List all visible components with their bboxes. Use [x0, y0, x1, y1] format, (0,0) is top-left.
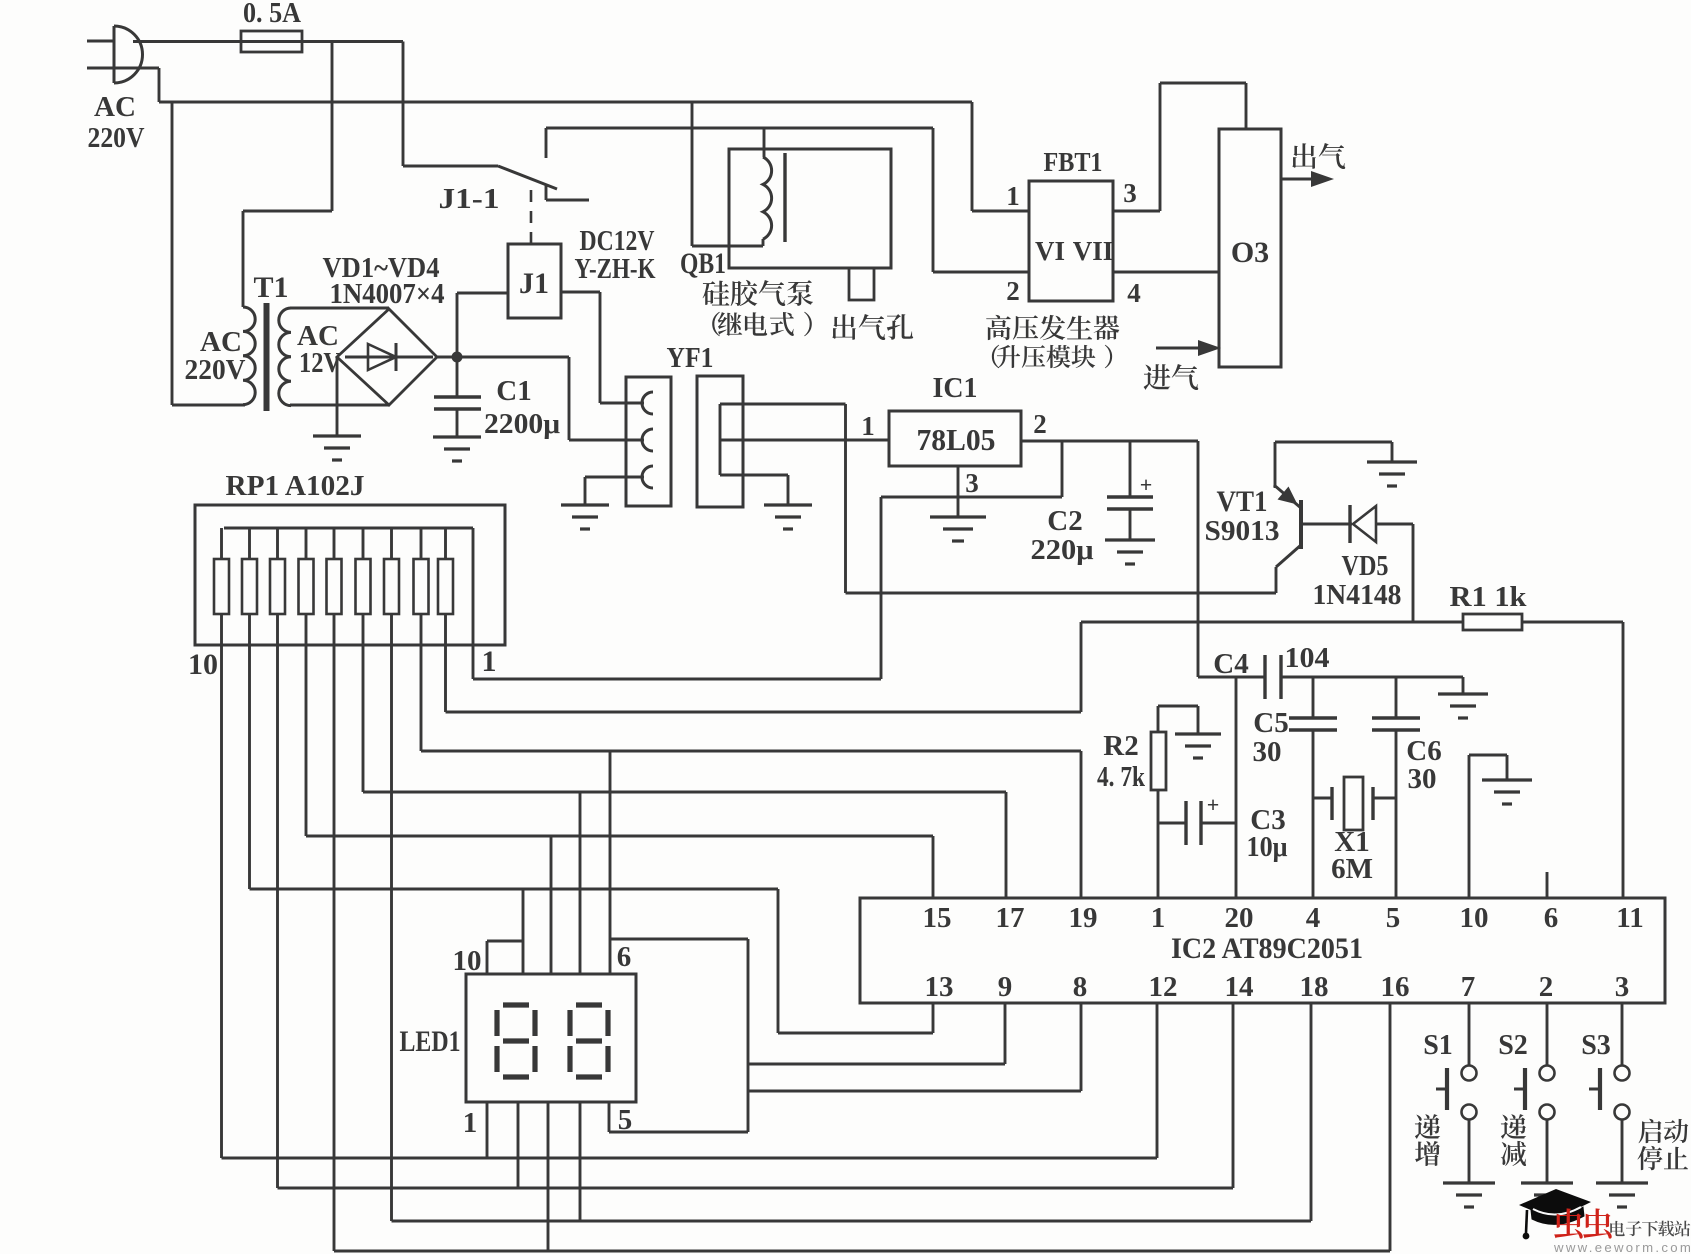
label R2 — [1103, 730, 1138, 762]
wire plug lower to AC rail — [107, 68, 159, 102]
label pin 1 (IC1) — [861, 411, 875, 441]
LED1 pin6 wire — [609, 751, 612, 974]
fuse FU 0.5A — [241, 31, 302, 52]
RP1 resistor elements — [214, 528, 453, 645]
LED1 pin5 bracket — [609, 1102, 748, 1132]
relay J1 — [508, 244, 561, 318]
wire RP1-9 to R1 rail — [446, 622, 1082, 712]
transistor VT1 — [1274, 485, 1301, 593]
connector YF1 left shell — [626, 377, 671, 506]
label J1-1 — [439, 184, 500, 215]
svg-text:2200μ: 2200μ — [484, 408, 561, 440]
label 30 (C5) — [1253, 736, 1282, 768]
crystal X1 — [1313, 777, 1396, 830]
label pin 17 (IC2 top) — [996, 902, 1025, 934]
LED1 pin2 wire — [517, 1102, 520, 1188]
svg-text:S2: S2 — [1498, 1030, 1528, 1061]
svg-text:10μ: 10μ — [1247, 831, 1288, 863]
resistor R2 — [1151, 732, 1166, 790]
label 1N4148 — [1313, 579, 1402, 611]
label pin 6 (IC2 top) — [1544, 902, 1559, 934]
label silicone air pump — [703, 280, 813, 306]
ground (C4 rail) — [1438, 694, 1488, 718]
wire RP1-1 to IC2 pin12 rail — [222, 645, 1158, 1158]
label 104 — [1285, 642, 1330, 674]
label pin 11 (IC2 top) — [1616, 902, 1643, 934]
label pin 3 (FBT1) — [1123, 178, 1137, 208]
LED1 pin4 wire — [579, 1102, 582, 1221]
wire fuse branch to T1 primary — [243, 42, 332, 308]
svg-text:12: 12 — [1149, 971, 1178, 1003]
svg-text:VII: VII — [1073, 236, 1114, 266]
ground (YF1 right) — [764, 505, 812, 529]
switch J1-1 arm — [403, 166, 557, 189]
LED1 digit 8 (left) — [497, 1005, 535, 1077]
wire C4 rail right — [1281, 677, 1463, 694]
watermark url — [1553, 1240, 1691, 1254]
ground (S1) — [1443, 1183, 1495, 1207]
label start stop — [1637, 1119, 1688, 1170]
wire R1 to IC2 pin11 — [1522, 622, 1623, 898]
svg-text:QB1: QB1 — [680, 247, 726, 280]
svg-text:FBT1: FBT1 — [1044, 147, 1103, 177]
label C2 — [1047, 505, 1082, 537]
label pin 1 (IC2 top) — [1151, 902, 1166, 934]
LED1 pin6 branch to IC2 pin9 rail — [610, 939, 748, 1132]
svg-text:YF1: YF1 — [667, 342, 714, 374]
label R1 1k — [1450, 581, 1528, 613]
wire C4 tap to IC2 pin20 — [1235, 677, 1238, 898]
ground (IC1 pin3) — [930, 517, 986, 541]
label 30 (C6) — [1408, 763, 1437, 795]
label S2 — [1498, 1030, 1528, 1061]
wire RP1-7 to IC2 pin18 rail — [392, 645, 1312, 1221]
label 5 (LED1) — [618, 1104, 633, 1136]
label pin 13 (IC2 bottom) — [925, 971, 954, 1003]
wire YF1 right bottom pin to ground — [720, 475, 788, 505]
label (boost module) — [992, 345, 1112, 369]
label AC 220V (plug) — [88, 91, 145, 154]
label IC2 AT89C2051 — [1171, 932, 1363, 965]
wire IC2 pin8 rail — [748, 1003, 1081, 1091]
LED1 pin10 bracket — [487, 941, 523, 974]
label VT1 — [1217, 485, 1268, 518]
svg-text:O3: O3 — [1231, 236, 1269, 269]
bridge rectifier VD1~VD4 — [337, 309, 437, 405]
label 2200u — [484, 408, 561, 440]
label pin 2 (FBT1) — [1006, 276, 1020, 306]
svg-text:J1: J1 — [519, 267, 549, 300]
label X1 — [1334, 826, 1369, 858]
ozone tube O3 — [1219, 129, 1281, 367]
diode VD5 — [1350, 505, 1376, 543]
label 1 (RP1) — [482, 645, 497, 678]
label 1N4007x4 — [330, 279, 445, 310]
wire plug to fuse — [133, 40, 241, 43]
wire YF1 left bottom pin to ground — [585, 477, 626, 505]
wire RP1-8 to IC2 pin19 / LED pin6 — [421, 645, 1081, 898]
wire IC2 pin10 to ground — [1469, 755, 1507, 898]
ground (S2) — [1521, 1183, 1573, 1207]
svg-text:S1: S1 — [1423, 1030, 1453, 1061]
node +12V junction dot — [452, 352, 463, 363]
svg-text:VD5: VD5 — [1342, 550, 1389, 582]
svg-text:30: 30 — [1408, 763, 1437, 795]
transformer T1 core — [264, 303, 270, 411]
label 78L05 — [917, 422, 996, 457]
svg-text:+: + — [1207, 792, 1220, 817]
label 1 (LED1) — [463, 1107, 478, 1139]
label pin 2 (IC2 bottom) — [1539, 971, 1554, 1003]
label air in — [1144, 364, 1199, 390]
label DC12V — [580, 225, 655, 257]
ground (C1) — [433, 437, 481, 461]
capacitor C4 — [1265, 655, 1281, 699]
ground (VT1 emitter) — [1367, 462, 1417, 486]
RP1 common bus — [224, 527, 473, 530]
LED1 digit 8 (right) — [570, 1005, 608, 1077]
wire VT1 collector rail — [846, 592, 1277, 595]
capacitor C2 — [1107, 441, 1153, 540]
label S9013 — [1205, 515, 1280, 547]
label C3 — [1250, 804, 1285, 836]
svg-text:3: 3 — [1615, 971, 1630, 1003]
svg-text:15: 15 — [923, 902, 952, 934]
svg-text:1N4148: 1N4148 — [1313, 579, 1402, 611]
wire RP1-5 to IC2 pin16 rail — [334, 645, 1390, 1251]
switch S3 — [1589, 1003, 1630, 1183]
svg-text:8: 8 — [1073, 971, 1088, 1003]
svg-text:RP1 A102J: RP1 A102J — [226, 470, 365, 502]
label C5 — [1253, 707, 1288, 739]
transformer T1 primary winding — [243, 307, 255, 405]
svg-text:C4: C4 — [1213, 648, 1248, 680]
svg-text:C2: C2 — [1047, 505, 1082, 537]
wire RP1-2 to LED/IC2 pin13 — [250, 645, 934, 1033]
wire VT1 emitter to ground — [1275, 442, 1392, 488]
label pin 3 (IC1) — [965, 468, 979, 498]
label pin 20 (IC2 top) — [1225, 902, 1254, 934]
label 10 (LED1) — [453, 945, 482, 977]
ground (IC2 pin10) — [1482, 780, 1532, 804]
label 0.5A — [243, 0, 302, 29]
regulator IC1 78L05 — [889, 411, 1021, 466]
ground (YF1 left) — [561, 505, 609, 529]
wire T1 secondary to bridge AC+ — [290, 307, 389, 310]
LED1 top pin to RP1-6 rail — [579, 792, 582, 974]
label 10u — [1247, 831, 1288, 863]
label pin 4 (FBT1) — [1127, 278, 1141, 308]
label pin 16 (IC2 bottom) — [1381, 971, 1410, 1003]
label Y-ZH-K — [575, 253, 656, 285]
transformer T1 secondary winding — [279, 308, 291, 406]
svg-text:www.eeworm.com: www.eeworm.com — [1553, 1240, 1691, 1254]
capacitor C1 — [434, 357, 481, 437]
connector YF1 right shell — [697, 376, 743, 507]
IC2 pin6 stub — [1546, 872, 1549, 898]
svg-text:17: 17 — [996, 902, 1025, 934]
label AC 12V (secondary) — [297, 320, 341, 379]
svg-text:1: 1 — [463, 1107, 478, 1139]
LED1 pin3 wire — [547, 1102, 550, 1251]
svg-text:14: 14 — [1225, 971, 1254, 1003]
label AC 220V (primary) — [185, 326, 246, 386]
label 4.7k — [1097, 762, 1145, 793]
label + (C3) — [1207, 792, 1220, 817]
wire VD5 anode — [1376, 524, 1413, 622]
watermark site name — [1610, 1221, 1690, 1237]
label QB1 — [680, 247, 726, 280]
pump QB1 coil — [763, 128, 772, 246]
capacitor C3 — [1186, 801, 1236, 845]
resistor R1 — [1463, 614, 1522, 630]
label (relay type) — [712, 312, 812, 336]
wire +5V rail — [1021, 440, 1198, 443]
wire R2 to C3 — [1158, 822, 1186, 825]
connector YF1 left pins (hooks) — [626, 392, 653, 488]
label C4 — [1213, 648, 1248, 680]
wire VT1 base to VD5 — [1301, 523, 1352, 526]
svg-text:9: 9 — [998, 971, 1013, 1003]
LED1 pin1 wire — [486, 1102, 489, 1158]
wire RP1-6 to IC2 pin17 rail — [363, 645, 1006, 898]
svg-text:1: 1 — [482, 645, 497, 678]
wire R2 top to ground — [1158, 706, 1198, 734]
svg-text:10: 10 — [453, 945, 482, 977]
svg-text:30: 30 — [1253, 736, 1282, 768]
svg-text:C1: C1 — [496, 375, 531, 407]
svg-text:R1 1k: R1 1k — [1450, 581, 1528, 613]
svg-text:78L05: 78L05 — [917, 422, 996, 457]
label S3 — [1581, 1030, 1611, 1061]
label air outlet hole — [832, 314, 913, 340]
switch J1-1 fixed contact — [546, 128, 589, 200]
svg-text:1: 1 — [1151, 902, 1166, 934]
wire P1.x rail to R1 — [1081, 621, 1463, 624]
label LED1 — [400, 1025, 461, 1058]
svg-text:R2: R2 — [1103, 730, 1138, 762]
label C6 — [1406, 735, 1441, 767]
label pin 12 (IC2 bottom) — [1149, 971, 1178, 1003]
label pin 14 (IC2 bottom) — [1225, 971, 1254, 1003]
svg-text:2: 2 — [1033, 409, 1047, 439]
wire R2 bottom to IC2 pin1 — [1157, 790, 1160, 898]
svg-text:11: 11 — [1616, 902, 1643, 934]
wire +12V to YF1 middle pin — [569, 357, 626, 440]
wire +5V return to RP1 common — [881, 441, 1062, 679]
label pin 7 (IC2 bottom) — [1461, 971, 1476, 1003]
svg-text:IC2 AT89C2051: IC2 AT89C2051 — [1171, 932, 1363, 965]
label increment — [1415, 1114, 1440, 1166]
pump QB1 core — [783, 153, 786, 242]
label decrement — [1501, 1114, 1526, 1166]
connector YF1 right pin bus — [719, 404, 722, 475]
svg-text:6M: 6M — [1331, 853, 1373, 885]
svg-text:220μ: 220μ — [1031, 534, 1095, 566]
wire FBT1 pin3 to O3 — [1113, 83, 1246, 211]
switch S2 — [1514, 1003, 1555, 1183]
label pin 1 (FBT1) — [1006, 181, 1020, 211]
arrow air out — [1281, 171, 1334, 187]
watermark cap logo — [1519, 1189, 1591, 1239]
svg-text:C5: C5 — [1253, 707, 1288, 739]
svg-text:7: 7 — [1461, 971, 1476, 1003]
wire RP1-4 to IC2 pin15 rail — [306, 645, 933, 898]
svg-text:220V: 220V — [88, 122, 145, 154]
wire fuse to J1-1 corner — [302, 42, 403, 167]
wire IC2 pin9 rail — [748, 1003, 1005, 1064]
wire J1 left to +12V node — [457, 293, 508, 357]
wire AC rail branch to T1 primary bottom — [172, 102, 245, 405]
svg-text:16: 16 — [1381, 971, 1410, 1003]
svg-text:VT1: VT1 — [1217, 485, 1268, 518]
svg-text:4: 4 — [1127, 278, 1141, 308]
svg-text:10: 10 — [188, 648, 218, 681]
wire YF1 right middle pin to 78L05 pin1 — [720, 439, 889, 442]
capacitor C6 — [1372, 677, 1420, 898]
svg-text:104: 104 — [1285, 642, 1330, 674]
svg-text:6: 6 — [617, 941, 632, 973]
svg-text:5: 5 — [1386, 902, 1401, 934]
svg-text:2: 2 — [1006, 276, 1020, 306]
label VD5 — [1342, 550, 1389, 582]
label pin 3 (IC2 bottom) — [1615, 971, 1630, 1003]
hv generator FBT1 — [1029, 181, 1113, 301]
label S1 — [1423, 1030, 1453, 1061]
label T1 — [253, 271, 288, 304]
label C1 — [496, 375, 531, 407]
svg-text:220V: 220V — [185, 354, 246, 386]
wire switched AC rail y=128 — [546, 127, 933, 130]
wire YF1 right top pin to VT1 collector rail — [720, 404, 846, 593]
svg-text:1: 1 — [1006, 181, 1020, 211]
svg-text:T1: T1 — [253, 271, 288, 304]
label 6 (LED1) — [617, 941, 632, 973]
svg-text:12V: 12V — [299, 347, 341, 379]
mcu IC2 AT89C2051 — [860, 898, 1665, 1003]
label hv generator — [986, 315, 1119, 340]
svg-text:VI: VI — [1035, 236, 1065, 266]
label pin 9 (IC2 bottom) — [998, 971, 1013, 1003]
wire T1 secondary to bridge AC- — [290, 404, 389, 407]
mechanical link J1 to J1-1 (dashed) — [530, 190, 533, 244]
svg-text:4: 4 — [1306, 902, 1321, 934]
svg-text:S9013: S9013 — [1205, 515, 1280, 547]
label FBT1 — [1044, 147, 1103, 177]
label pin 15 (IC2 top) — [923, 902, 952, 934]
pump QB1 outlet port — [849, 268, 874, 300]
svg-text:S3: S3 — [1581, 1030, 1611, 1061]
svg-text:3: 3 — [1123, 178, 1137, 208]
svg-text:+: + — [1140, 472, 1153, 497]
wire FBT1 pin4 to O3 — [1113, 271, 1219, 274]
display LED1 shell — [466, 974, 636, 1102]
wire +5V down to C4 rail — [1197, 441, 1200, 677]
label 6M — [1331, 853, 1373, 885]
svg-text:18: 18 — [1300, 971, 1329, 1003]
arrow air in — [1156, 340, 1221, 356]
label RP1 A102J — [226, 470, 365, 502]
svg-text:0. 5A: 0. 5A — [243, 0, 302, 29]
svg-text:1: 1 — [861, 411, 875, 441]
wire AC rail y=102 — [159, 101, 972, 104]
svg-text:13: 13 — [925, 971, 954, 1003]
label VI VII — [1035, 236, 1113, 266]
wire 78L05 pin3 to ground — [957, 466, 960, 517]
label O3 — [1231, 236, 1269, 269]
label pin 18 (IC2 bottom) — [1300, 971, 1329, 1003]
label pin 5 (IC2 top) — [1386, 902, 1401, 934]
svg-text:Y-ZH-K: Y-ZH-K — [575, 253, 656, 285]
label IC1 — [933, 372, 978, 404]
RP1 common riser to +5V — [472, 528, 475, 679]
label pin 10 (IC2 top) — [1460, 902, 1489, 934]
label 10 (RP1) — [188, 648, 218, 681]
ground (bridge negative) — [313, 357, 361, 460]
svg-text:3: 3 — [965, 468, 979, 498]
svg-text:AC: AC — [94, 91, 136, 123]
switch S1 — [1436, 1003, 1477, 1183]
ground (C2) — [1105, 540, 1155, 564]
LED1 top pin to RP1-4 rail — [550, 836, 553, 974]
svg-text:LED1: LED1 — [400, 1025, 461, 1058]
watermark chongchong — [1554, 1208, 1611, 1238]
svg-text:20: 20 — [1225, 902, 1254, 934]
ground (S3) — [1596, 1183, 1648, 1207]
resistor network RP1 shell — [195, 505, 505, 645]
capacitor C5 — [1289, 677, 1337, 898]
svg-text:4. 7k: 4. 7k — [1097, 762, 1145, 793]
label air out — [1292, 143, 1345, 169]
svg-text:6: 6 — [1544, 902, 1559, 934]
ground (R2 top) — [1175, 734, 1221, 758]
label YF1 — [667, 342, 714, 374]
wire J1 right to YF1 — [561, 292, 626, 403]
wire switched AC to FBT1 pin2 — [933, 128, 1029, 272]
wire bridge + output — [437, 356, 569, 359]
wire AC to FBT1 pin1 — [972, 102, 1029, 211]
label pin 8 (IC2 bottom) — [1073, 971, 1088, 1003]
wire RP1-3 to IC2 pin14 rail — [278, 645, 1234, 1188]
label 220u — [1031, 534, 1095, 566]
label VD1~VD4 — [323, 253, 440, 284]
svg-text:J1-1: J1-1 — [439, 184, 500, 215]
pump QB1 shell — [729, 149, 891, 268]
svg-text:1N4007×4: 1N4007×4 — [330, 279, 445, 310]
svg-text:19: 19 — [1069, 902, 1098, 934]
label pin 19 (IC2 top) — [1069, 902, 1098, 934]
label J1 — [519, 267, 549, 300]
wire AC to QB1 coil — [692, 102, 763, 246]
svg-text:2: 2 — [1539, 971, 1554, 1003]
label + (C2) — [1140, 472, 1153, 497]
LED1 top pin to RP1-2 rail — [522, 889, 525, 974]
svg-text:IC1: IC1 — [933, 372, 978, 404]
label pin 2 (IC1) — [1033, 409, 1047, 439]
diode symbol inside bridge — [345, 343, 433, 371]
svg-text:10: 10 — [1460, 902, 1489, 934]
label pin 4 (IC2 top) — [1306, 902, 1321, 934]
AC plug P1 — [87, 26, 143, 83]
wire C4 rail left — [1198, 676, 1265, 679]
wire RP1 common to +5V rail — [473, 678, 881, 681]
